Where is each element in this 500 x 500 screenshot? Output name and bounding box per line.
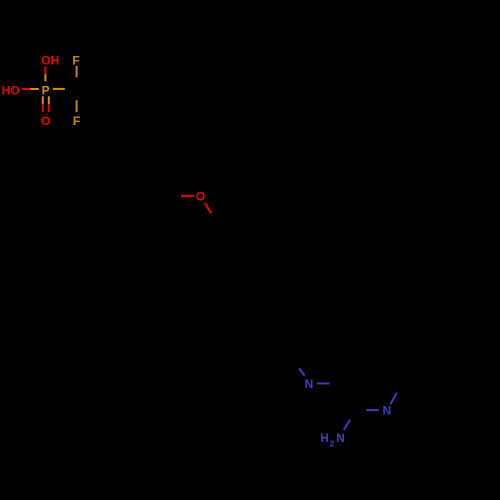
- svg-text:HO: HO: [2, 83, 20, 97]
- svg-text:F: F: [73, 114, 80, 128]
- wire bond C-F bottom vertical, F half (gold): [76, 100, 78, 112]
- wire bond N-C upper-right diagonal, N half (blue): [390, 393, 396, 405]
- wire bond P-OH vertical, P half (orange): [44, 74, 46, 81]
- svg-text:OH: OH: [41, 53, 59, 67]
- wire bond O-C ether lower-right diagonal, O half (red): [205, 203, 211, 213]
- wire bond C-N horizontal, N half (blue): [366, 409, 378, 411]
- atom label H2N (amino group): [320, 431, 344, 448]
- wire bond P-C horizontal, P half (orange): [53, 88, 65, 90]
- wire double bond P=O right line, O half (red): [48, 104, 50, 112]
- svg-text:O: O: [41, 114, 50, 128]
- wire bond P-OH vertical, O half (red): [44, 66, 46, 74]
- wire double bond P=O left line, O half (red): [42, 104, 44, 112]
- wire double bond P=O right line, P half (orange): [48, 96, 50, 104]
- svg-text:F: F: [72, 53, 79, 67]
- wire bond HO-P horizontal, P half (orange): [30, 88, 38, 90]
- wire bond C-F top vertical, F half (gold): [76, 66, 78, 78]
- svg-text:2: 2: [330, 438, 335, 448]
- wire bond chain-N upper-left diagonal, N half (blue): [299, 368, 305, 375]
- svg-text:H: H: [320, 431, 329, 445]
- svg-text:P: P: [42, 83, 50, 97]
- wire bond C-O ether left horizontal, O half (red): [181, 195, 194, 197]
- wire bond HO-P horizontal, O half (red): [22, 88, 30, 90]
- svg-text:N: N: [382, 404, 391, 418]
- svg-text:O: O: [196, 190, 205, 204]
- wire bond N-C horizontal right, N half (blue): [317, 382, 330, 384]
- wire double bond P=O left line, P half (orange): [42, 96, 44, 104]
- svg-text:N: N: [305, 377, 314, 391]
- wire bond C-NH2 diagonal, N half (blue): [344, 420, 350, 430]
- svg-text:N: N: [336, 431, 345, 445]
